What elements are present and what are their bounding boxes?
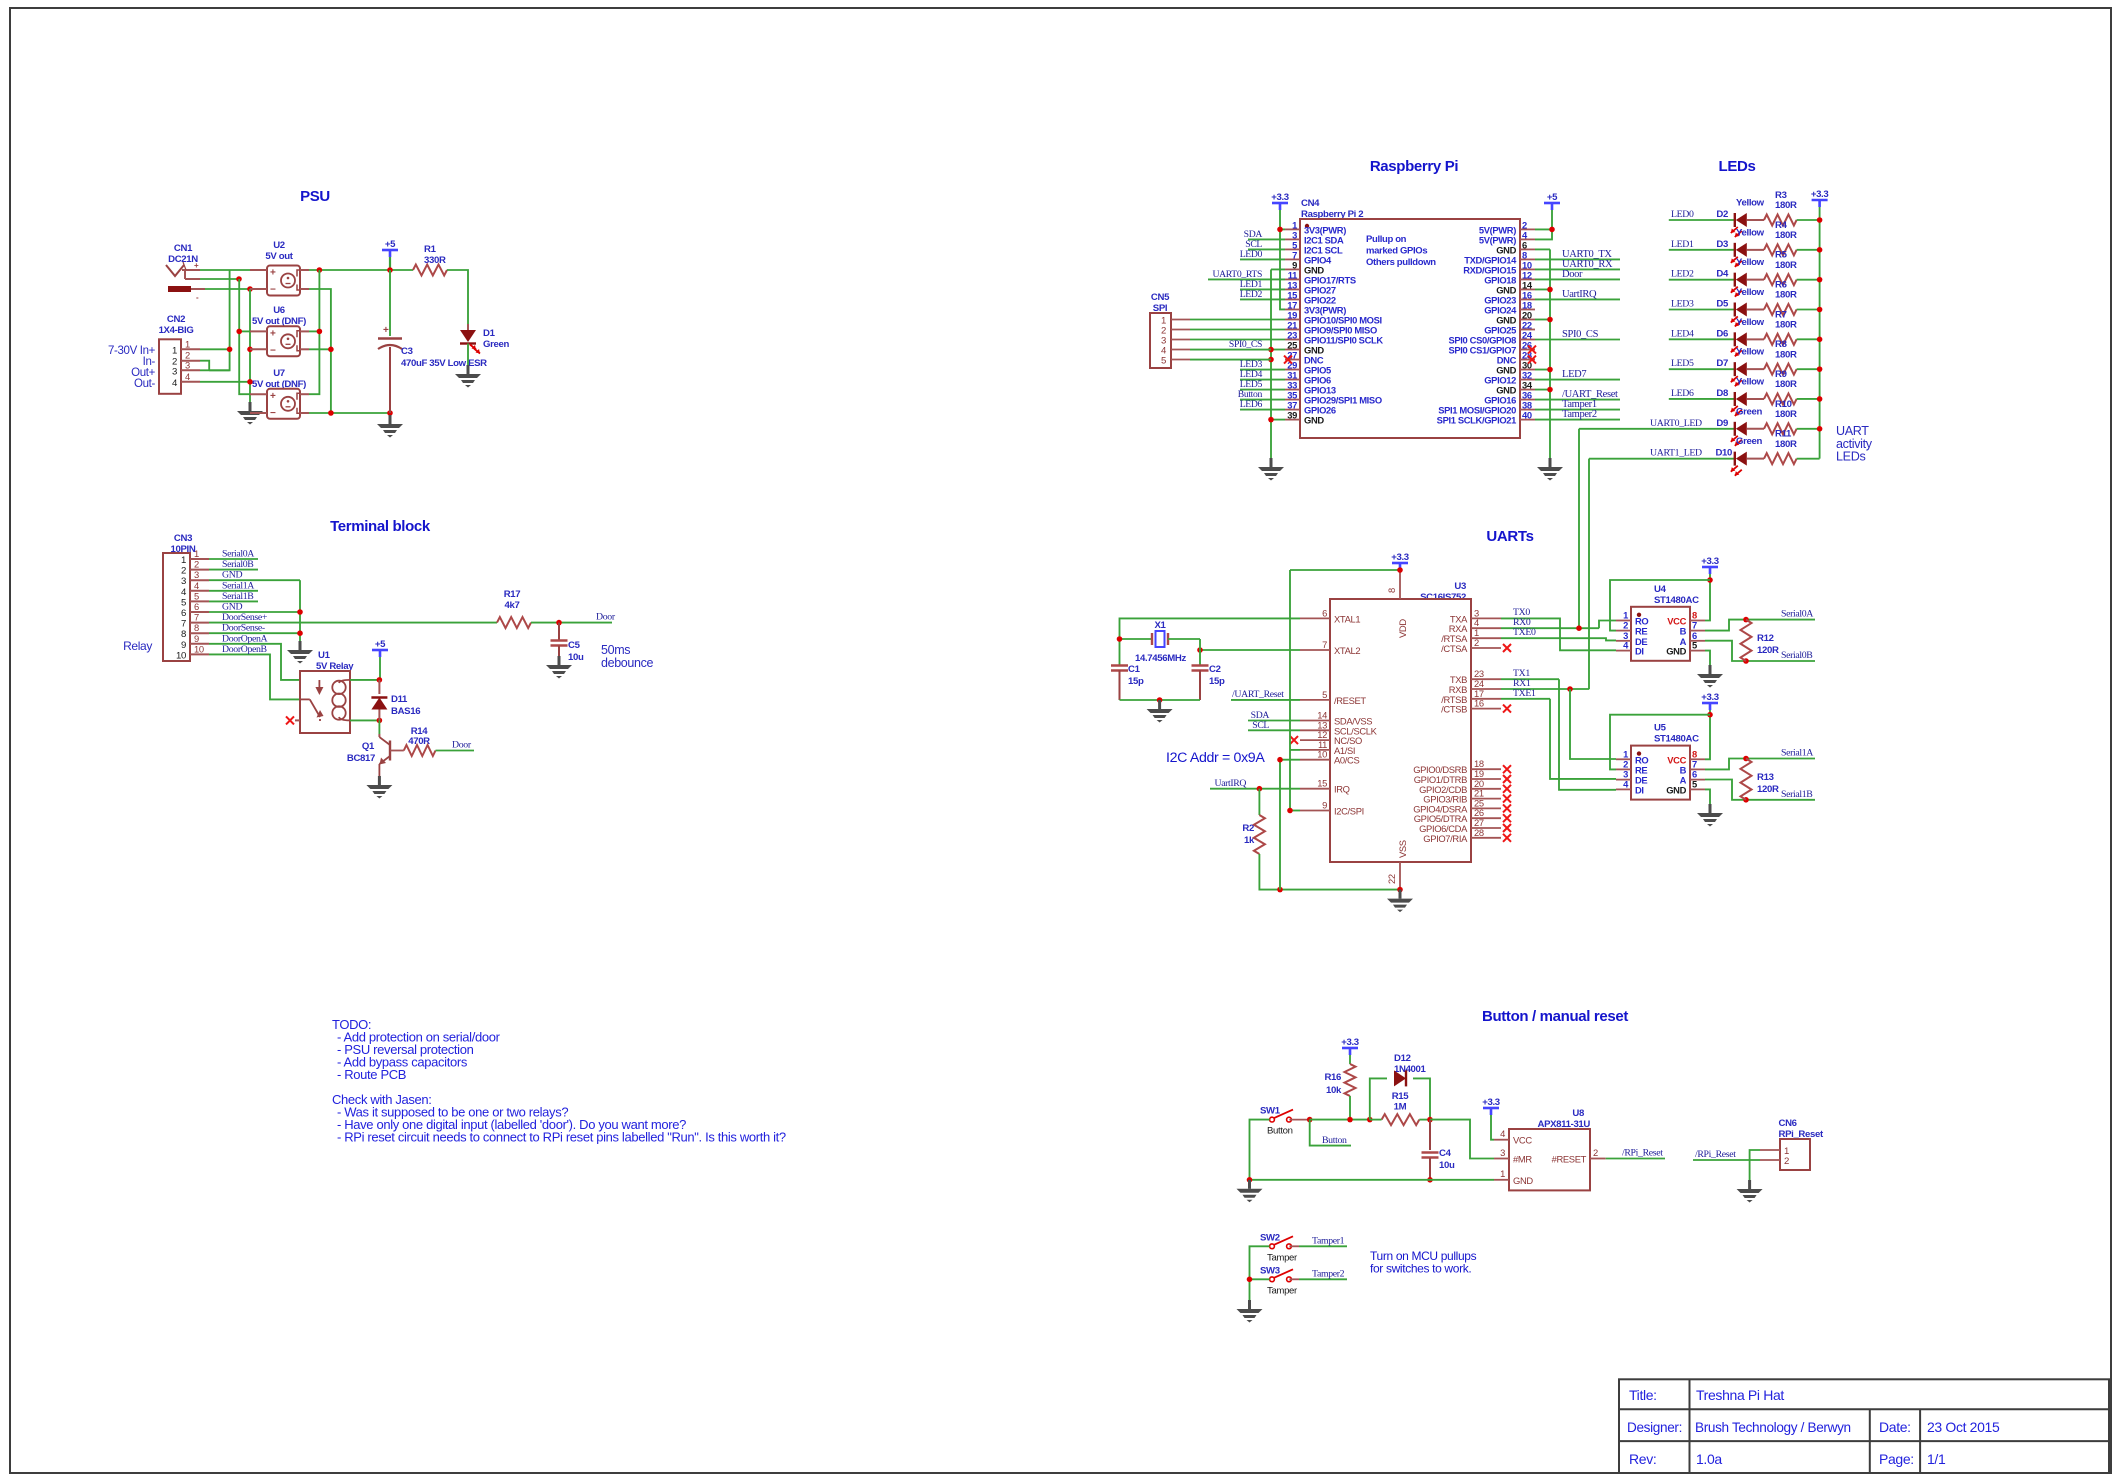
U3 pin 12 NC/SO: [1300, 739, 1330, 741]
CN4 pin 22 GPIO25: [1520, 329, 1535, 331]
CN4 pin 30 GND: [1520, 369, 1535, 371]
svg-text:Button / manual reset: Button / manual reset: [1482, 1008, 1628, 1025]
wire SW3 left to ground: [1250, 1279, 1270, 1300]
svg-text:16: 16: [1474, 698, 1484, 709]
ground below Q1: [378, 776, 381, 785]
ground below CN4 left rail: [1270, 458, 1273, 467]
junction +3.3 bus row 5: [1817, 366, 1823, 372]
CN4 pin 32 GPIO12: [1520, 379, 1535, 381]
wire net LED1: [1669, 249, 1735, 251]
svg-text:180R: 180R: [1775, 439, 1797, 450]
junction +3.3 bus row 4: [1817, 337, 1823, 343]
ground below CN6: [1748, 1180, 1751, 1189]
svg-text:2: 2: [181, 566, 186, 577]
svg-text:1X4-BIG: 1X4-BIG: [159, 325, 194, 336]
svg-text:Serial1B: Serial1B: [1781, 789, 1813, 800]
svg-text:/UART_Reset: /UART_Reset: [1232, 689, 1284, 700]
wire +3.3 to U8 VCC: [1491, 1115, 1494, 1140]
svg-text:Serial0B: Serial0B: [222, 559, 254, 570]
svg-text:+: +: [270, 268, 276, 279]
svg-text:Button: Button: [1322, 1135, 1347, 1146]
svg-text:TXE1: TXE1: [1513, 688, 1536, 699]
junction U6 out-: [328, 347, 334, 353]
ground below SW3: [1248, 1300, 1251, 1309]
CN4 pin 31 GPIO6: [1285, 379, 1300, 381]
wire CN3 pin 2 net Serial0B: [209, 569, 258, 571]
svg-text:Yellow: Yellow: [1736, 287, 1765, 298]
junction sleeve node: [247, 286, 253, 292]
svg-text:5: 5: [181, 597, 186, 608]
svg-text:7: 7: [181, 619, 186, 630]
wire CN4 net /UART_Reset: [1535, 399, 1620, 401]
wire Button net label stub: [1310, 1120, 1351, 1146]
svg-text:marked GPIOs: marked GPIOs: [1366, 246, 1427, 257]
junction +3.3 bus row 2: [1817, 277, 1823, 283]
svg-text:CN2: CN2: [167, 314, 185, 325]
wire node to U8 #MR: [1430, 1120, 1494, 1159]
wire CN4 right GND rail: [1549, 249, 1551, 458]
CN4 pin 2 5V(PWR): [1520, 228, 1535, 230]
wire +5 to pins 2,4: [1535, 210, 1552, 239]
svg-text:Yellow: Yellow: [1736, 317, 1765, 328]
svg-text:GND: GND: [1666, 646, 1686, 657]
transistor Q1 BC817: [378, 720, 380, 734]
svg-text:Button: Button: [1267, 1126, 1293, 1137]
svg-text:D11: D11: [391, 694, 408, 705]
svg-text:D4: D4: [1716, 269, 1729, 280]
no-connect X U3 pin 16: [1503, 705, 1511, 713]
junction U2 out+: [317, 267, 323, 273]
junction CN2 pin4 gnd: [247, 379, 253, 385]
svg-text:5: 5: [194, 590, 199, 601]
wire SW2 to Tamper1 label: [1299, 1245, 1347, 1247]
svg-text:15: 15: [1317, 778, 1327, 789]
svg-text:CN5: CN5: [1151, 292, 1170, 303]
wire +3.3 to U5 VCC and RE: [1705, 710, 1710, 759]
svg-text:LED1: LED1: [1671, 239, 1694, 250]
wire net LED0: [1669, 219, 1735, 221]
CN4 pin 37 GPIO26: [1285, 409, 1300, 411]
svg-text:SW2: SW2: [1260, 1232, 1280, 1243]
wire U2 out- rail down: [309, 289, 331, 413]
CN4 pin 7 GPIO4: [1285, 258, 1300, 260]
CN4 pin 23 GPIO11/SPI0 SCLK: [1285, 339, 1300, 341]
CN4 pin 16 GPIO23: [1520, 298, 1535, 300]
svg-text:4: 4: [194, 580, 199, 591]
wire +3.3 to pin1 and pin17: [1280, 210, 1285, 309]
svg-text:D10: D10: [1715, 448, 1732, 459]
wire CN2 pin2 elbow to pin3 net: [200, 361, 209, 371]
CN4 pin 33 GPIO13: [1285, 389, 1300, 391]
junction CN2 pin1: [227, 347, 233, 353]
svg-text:U7: U7: [273, 368, 285, 379]
wire Q1 emitter to ground: [378, 764, 380, 776]
CN4 pin 26 SPI0 CS1/GPIO7: [1520, 349, 1535, 351]
wire relay coil- node: [350, 719, 379, 721]
svg-text:6: 6: [181, 608, 186, 619]
svg-text:GND: GND: [1304, 415, 1324, 426]
U3 pin 16 /CTSB: [1471, 708, 1501, 710]
junction U6 +in: [236, 329, 242, 335]
svg-text:Title:: Title:: [1629, 1387, 1657, 1403]
resistor R12 120R: [1741, 620, 1752, 661]
junction DoorSense- pin8: [297, 630, 303, 636]
svg-text:/CTSA: /CTSA: [1441, 643, 1468, 654]
svg-text:Door: Door: [596, 611, 616, 622]
wire net LED2: [1669, 279, 1735, 281]
CN4 pin 34 GND: [1520, 389, 1535, 391]
svg-text:GND: GND: [222, 602, 242, 613]
svg-text:SCL: SCL: [1252, 720, 1269, 731]
svg-text:CN3: CN3: [174, 533, 192, 544]
wire CN4 net LED2: [1240, 298, 1285, 300]
wire R11 to +3.3 bus: [1797, 458, 1820, 460]
U3 pin 10 A0/CS: [1300, 759, 1330, 761]
wire CN3 pin 3 net GND: [209, 579, 300, 581]
wire U5 GND to ground: [1705, 789, 1710, 804]
svg-text:14.7456MHz: 14.7456MHz: [1135, 653, 1186, 664]
svg-text:Relay: Relay: [123, 639, 152, 653]
wire CN4 net UART0_RTS: [1208, 278, 1285, 280]
wire net LED6: [1669, 398, 1735, 400]
junction Serial0B R12: [1743, 658, 1749, 664]
svg-text:−: −: [270, 345, 276, 356]
junction CN4 pin1: [1277, 227, 1283, 233]
svg-text:−: −: [270, 285, 276, 296]
svg-text:D8: D8: [1716, 388, 1729, 399]
junction +3.3 bus row 1: [1817, 247, 1823, 253]
svg-text:Tamper: Tamper: [1267, 1252, 1298, 1263]
svg-text:GPIO7/RIA: GPIO7/RIA: [1423, 833, 1468, 844]
junction U3 VSS: [1397, 887, 1403, 893]
wire relay coil+ to +5: [350, 679, 379, 681]
wire CN5 pin4 SPI0_CS: [1190, 349, 1271, 351]
CN4 pin 27 DNC: [1285, 359, 1300, 361]
wire U4 B to Serial0A: [1705, 620, 1815, 631]
svg-text:LED2: LED2: [1671, 269, 1694, 280]
U3 pin 18 GPIO0/DSRB: [1471, 768, 1501, 770]
wire net UART1_LED: [1589, 458, 1735, 460]
junction U6 out+: [317, 329, 323, 335]
wire CN4 net UART0_RX: [1535, 268, 1620, 270]
ground below C5: [558, 656, 561, 665]
U3 pin 13 SCL/SCLK: [1300, 729, 1330, 731]
svg-text:LEDs: LEDs: [1719, 158, 1756, 175]
svg-text:1N4001: 1N4001: [1394, 1064, 1427, 1075]
svg-text:UART0_LED: UART0_LED: [1650, 418, 1702, 429]
svg-text:10: 10: [1317, 749, 1327, 760]
svg-text:15p: 15p: [1209, 676, 1225, 687]
svg-text:VSS: VSS: [1397, 840, 1408, 858]
junction left gnd pin39: [1268, 417, 1274, 423]
svg-text:28: 28: [1474, 827, 1484, 838]
svg-text:U1: U1: [318, 650, 331, 661]
wire TX0 from TXA: [1501, 617, 1545, 619]
svg-text:DoorSense+: DoorSense+: [222, 612, 268, 623]
capacitor C5 10u: [558, 623, 560, 641]
svg-text:Door: Door: [1562, 269, 1583, 280]
resistor R13 120R: [1741, 759, 1752, 800]
svg-text:R13: R13: [1757, 772, 1774, 783]
svg-text:BC817: BC817: [347, 753, 375, 764]
svg-text:1.0a: 1.0a: [1696, 1451, 1722, 1467]
svg-text:Serial0B: Serial0B: [1781, 650, 1813, 661]
wire CN5 pin2 SPI0 MISO: [1190, 329, 1285, 331]
wire CN3 pin 10 net DoorOpenB: [209, 654, 300, 699]
svg-text:Date:: Date:: [1879, 1419, 1911, 1435]
svg-text:IRQ: IRQ: [1334, 784, 1350, 795]
CN4 pin 14 GND: [1520, 288, 1535, 290]
ground below CN3 gnd rail: [299, 641, 302, 650]
svg-text:1: 1: [1500, 1168, 1505, 1179]
svg-text:D5: D5: [1716, 298, 1729, 309]
svg-text:Yellow: Yellow: [1736, 198, 1765, 209]
CN4 pin 1 3V3(PWR): [1285, 228, 1300, 230]
U3 pin 1 /RTSA: [1471, 637, 1501, 639]
svg-text:R17: R17: [504, 589, 521, 600]
capacitor C2 15p: [1192, 664, 1209, 666]
svg-text:ST1480AC: ST1480AC: [1654, 734, 1699, 745]
no-connect X U3 pin 20: [1503, 785, 1511, 793]
wire LED +3.3 bus vertical: [1819, 207, 1821, 459]
CN4 pin 11 GPIO17/RTS: [1285, 278, 1300, 280]
junction +3.3 bus row 3: [1817, 307, 1823, 313]
connector CN1 barrel jack symbol: [166, 265, 184, 276]
no-connect X CN4 pin 26: [1528, 346, 1536, 354]
wire net UART0_LED: [1579, 428, 1735, 430]
CN4 pin 21 GPIO9/SPI0 MISO: [1285, 329, 1300, 331]
junction right gnd row 6: [1547, 287, 1553, 293]
U3 VSS pin 22: [1399, 862, 1401, 890]
wire R5 to +3.3 bus: [1797, 279, 1820, 281]
wire D1 to ground: [467, 344, 469, 366]
svg-text:Rev:: Rev:: [1629, 1451, 1656, 1467]
svg-text:23 Oct 2015: 23 Oct 2015: [1927, 1419, 2000, 1435]
junction crystal gnd: [1157, 697, 1163, 703]
svg-text:C3: C3: [401, 346, 413, 357]
svg-text:LED4: LED4: [1671, 328, 1694, 339]
svg-text:9: 9: [1322, 800, 1327, 811]
junction relay coil- node: [377, 718, 383, 724]
wire vertical In- rail to U6/U7 + inputs: [239, 279, 250, 394]
junction C3 bottom: [387, 410, 393, 416]
junction IRQ R2 node: [1257, 786, 1263, 792]
svg-text:VDD: VDD: [1397, 619, 1408, 638]
svg-text:U8: U8: [1572, 1108, 1585, 1119]
svg-text:−: −: [270, 408, 276, 419]
capacitor C1 15p: [1111, 664, 1128, 666]
wire GND rail to CN2 pin4: [200, 381, 250, 383]
svg-text:Yellow: Yellow: [1736, 347, 1765, 358]
svg-text:Tamper: Tamper: [1267, 1285, 1298, 1296]
wire R7 to +3.3 bus: [1797, 338, 1820, 340]
svg-text:LED3: LED3: [1671, 298, 1694, 309]
wire R14 to Door label: [436, 750, 475, 752]
svg-text:DI: DI: [1635, 646, 1644, 657]
svg-text:Raspberry Pi: Raspberry Pi: [1370, 158, 1459, 175]
junction +3.3 bus row 7: [1817, 426, 1823, 432]
capacitor C4 10u: [1429, 1120, 1431, 1150]
svg-text:Serial0A: Serial0A: [1781, 609, 1813, 620]
capacitor C3 470uF: [389, 270, 391, 336]
no-connect X U3 pin 25: [1503, 804, 1511, 812]
junction GND pin6: [297, 609, 303, 615]
svg-text:U5: U5: [1654, 723, 1667, 734]
junction A0 rail gnd: [1277, 887, 1283, 893]
svg-text:8: 8: [181, 629, 186, 640]
ground below CN4 right rail: [1549, 458, 1552, 467]
junction right gnd row 9: [1547, 317, 1553, 323]
junction right gnd row 14: [1547, 367, 1553, 373]
wire vertical GND rail sleeve to ground: [249, 289, 251, 402]
svg-text:Serial1A: Serial1A: [1781, 748, 1813, 759]
junction C5 top: [556, 620, 562, 626]
no-connect X U3 pin 27: [1503, 824, 1511, 832]
no-connect X U3 pin 28: [1503, 834, 1511, 842]
svg-text:+: +: [270, 391, 276, 402]
svg-text:C2: C2: [1209, 664, 1221, 675]
wire TX1 from TXB: [1501, 678, 1559, 680]
diode D12 1N4001: [1370, 1078, 1387, 1119]
junction R15 right C4: [1427, 1117, 1433, 1123]
svg-text:5: 5: [1322, 689, 1327, 700]
svg-text:CN6: CN6: [1779, 1118, 1797, 1129]
svg-text:UARTs: UARTs: [1486, 528, 1533, 545]
svg-text:U4: U4: [1654, 584, 1667, 595]
svg-text:120R: 120R: [1757, 645, 1779, 656]
junction RX0 UART0_LED: [1576, 625, 1582, 631]
svg-text:2: 2: [1593, 1147, 1598, 1158]
junction C4 bottom: [1427, 1177, 1433, 1183]
svg-text:1: 1: [185, 338, 190, 349]
wire U5 A to Serial1B: [1705, 780, 1815, 800]
svg-text:GND: GND: [1666, 784, 1686, 795]
svg-text:6: 6: [194, 601, 199, 612]
CN4 pin 3 I2C1 SDA: [1285, 238, 1300, 240]
svg-text:Tamper1: Tamper1: [1312, 1235, 1345, 1246]
svg-text:8: 8: [1386, 588, 1397, 593]
svg-text:/RPi_Reset: /RPi_Reset: [1695, 1149, 1736, 1160]
svg-text:SW3: SW3: [1260, 1265, 1280, 1276]
svg-text:1: 1: [181, 555, 186, 566]
svg-text:180R: 180R: [1775, 230, 1797, 241]
CN4 pin 36 GPIO16: [1520, 399, 1535, 401]
svg-text:#MR: #MR: [1513, 1154, 1532, 1165]
wire CN6 pin1 to ground: [1750, 1150, 1760, 1180]
U3 pin 25 GPIO4/DSRA: [1471, 807, 1501, 809]
ground below CN2: [249, 402, 252, 411]
svg-text:10u: 10u: [1439, 1160, 1455, 1171]
wire CN3 pin 5 net Serial1B: [209, 600, 258, 602]
svg-text:D1: D1: [483, 328, 496, 339]
svg-text:Green: Green: [1736, 436, 1762, 447]
U3 pin 20 GPIO2/CDB: [1471, 788, 1501, 790]
wire CN4 net LED0: [1240, 258, 1285, 260]
junction +3.3 bus row 0: [1817, 217, 1823, 223]
U3 pin 14 SDA/VSS: [1300, 720, 1330, 722]
wire XTAL1 to crystal: [1120, 618, 1301, 665]
svg-text:/CTSB: /CTSB: [1441, 704, 1467, 715]
wire U4 GND to ground: [1705, 651, 1710, 665]
svg-text:180R: 180R: [1775, 290, 1797, 301]
wire gnd rail SW1 to U8: [1250, 1179, 1495, 1181]
U3 pin 15 IRQ: [1300, 788, 1330, 790]
wire SDA to U3: [1248, 720, 1300, 722]
svg-text:C5: C5: [568, 640, 581, 651]
wire CN5 pin5 GND: [1190, 359, 1271, 361]
svg-text:Terminal block: Terminal block: [330, 518, 431, 535]
wire A1/SI rail vertical: [1289, 570, 1291, 811]
wire RX1 from RXB: [1501, 688, 1589, 690]
CN4 pin 4 5V(PWR): [1520, 238, 1535, 240]
svg-text:Serial1B: Serial1B: [222, 591, 254, 602]
wire CN4 net Button: [1240, 399, 1285, 401]
svg-text:A0/CS: A0/CS: [1334, 755, 1359, 766]
svg-text:10k: 10k: [1326, 1085, 1342, 1096]
wire main button row: [1310, 1119, 1370, 1121]
junction Serial0A R12: [1743, 617, 1749, 623]
wire R4 to +3.3 bus: [1797, 249, 1820, 251]
svg-text:D2: D2: [1716, 209, 1728, 220]
svg-text:+: +: [270, 328, 276, 339]
svg-text:UartIRQ: UartIRQ: [1562, 289, 1597, 300]
svg-text:DoorSense-: DoorSense-: [222, 623, 265, 634]
svg-text:- RPi reset circuit needs to c: - RPi reset circuit needs to connect to …: [337, 1130, 786, 1145]
wire In- to U6 +in: [239, 330, 250, 332]
svg-text:5V out: 5V out: [265, 251, 293, 262]
svg-text:1: 1: [172, 345, 177, 356]
no-connect X U3 pin 21: [1503, 795, 1511, 803]
junction SW1 node: [1307, 1117, 1313, 1123]
wire CN4 net UART0_TX: [1535, 258, 1620, 260]
svg-text:SPI0_CS: SPI0_CS: [1229, 339, 1262, 350]
wire net LED3: [1669, 308, 1735, 310]
U3 pin 2 /CTSA: [1471, 647, 1501, 649]
svg-text:+5: +5: [385, 239, 396, 250]
svg-text:Green: Green: [1736, 406, 1762, 417]
svg-text:VCC: VCC: [1513, 1135, 1532, 1146]
svg-text:2: 2: [1784, 1156, 1789, 1167]
junction R16 bottom: [1347, 1117, 1353, 1123]
svg-text:9: 9: [181, 640, 186, 651]
svg-text:Brush Technology / Berwyn: Brush Technology / Berwyn: [1695, 1420, 1851, 1435]
wire U8 #RESET to /RPi_Reset: [1606, 1158, 1665, 1160]
svg-text:U3: U3: [1454, 581, 1466, 592]
svg-text:DoorOpenA: DoorOpenA: [222, 633, 268, 644]
svg-text:180R: 180R: [1775, 409, 1797, 420]
wire CN5 pin1 SPI0 MOSI: [1190, 318, 1285, 320]
svg-text:/RESET: /RESET: [1334, 695, 1366, 706]
svg-text:I2C Addr = 0x9A: I2C Addr = 0x9A: [1166, 750, 1265, 766]
svg-text:7: 7: [1322, 639, 1327, 650]
svg-text:10: 10: [194, 643, 204, 654]
svg-text:X1: X1: [1154, 620, 1166, 631]
CN4 pin 17 3V3(PWR): [1285, 308, 1300, 310]
svg-text:CN4: CN4: [1301, 198, 1320, 209]
junction right gnd row 16: [1547, 387, 1553, 393]
U3 pin 28 GPIO7/RIA: [1471, 837, 1501, 839]
wire CN4 left GND rail: [1270, 269, 1272, 458]
wire CN4 net Tamper1: [1535, 409, 1620, 411]
CN4 pin 10 RXD/GPIO15: [1520, 268, 1535, 270]
U3 pin 3 TXA: [1471, 617, 1501, 619]
U3 pin 7 XTAL2: [1300, 649, 1330, 651]
svg-text:Yellow: Yellow: [1736, 376, 1765, 387]
svg-text:3: 3: [194, 569, 199, 580]
svg-text:180R: 180R: [1775, 260, 1797, 271]
wire R2 to gnd rail: [1259, 854, 1400, 890]
wire CN3 pin 9 net DoorOpenA: [209, 644, 300, 680]
